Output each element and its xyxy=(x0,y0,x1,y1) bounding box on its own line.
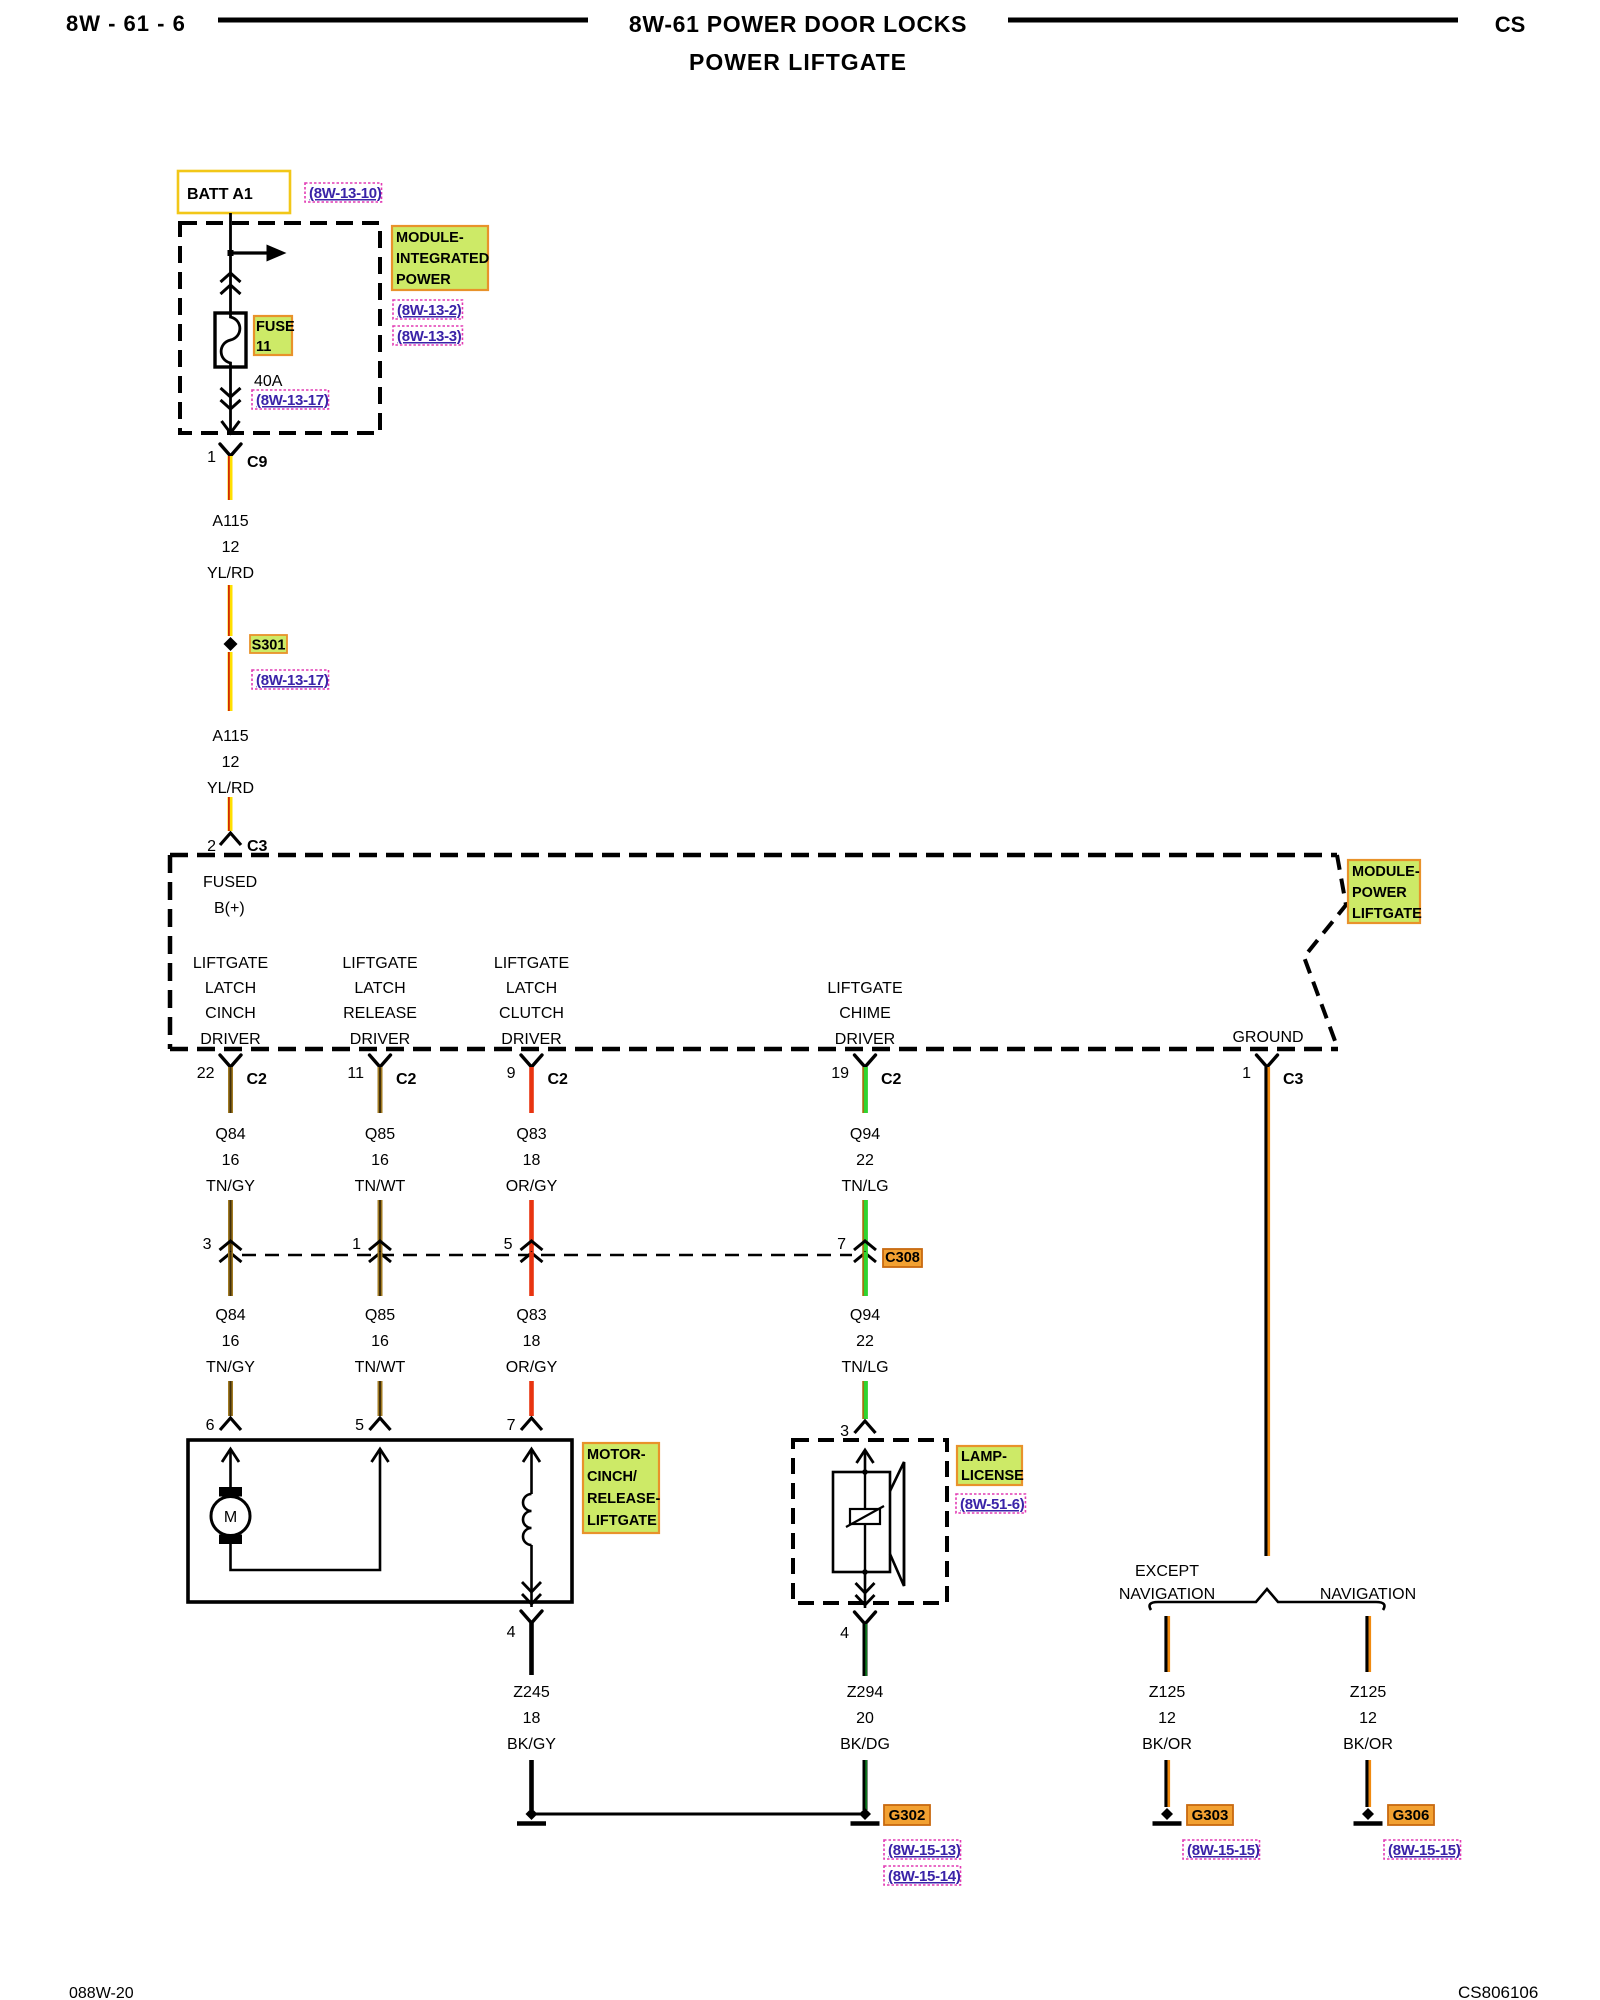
wire Z245 seg2 xyxy=(529,1760,534,1810)
wire Q85 seg2 xyxy=(378,1200,383,1252)
svg-text:C9: C9 xyxy=(247,454,268,471)
fuse rating 40A xyxy=(254,373,283,390)
pin function liftgate latch cinch driver xyxy=(193,955,268,1048)
svg-text:22: 22 xyxy=(197,1065,215,1082)
module-power liftgate dashed box xyxy=(170,855,1346,1049)
ground label G306 xyxy=(1388,1805,1434,1825)
pin function liftgate latch clutch driver xyxy=(494,955,569,1048)
header rule left xyxy=(218,18,588,23)
svg-text:LAMP-: LAMP- xyxy=(961,1449,1007,1465)
splice S301 xyxy=(224,635,288,654)
svg-text:(8W-13-3): (8W-13-3) xyxy=(397,328,462,345)
svg-text:Q83: Q83 xyxy=(516,1307,546,1324)
wire Q85 seg4 xyxy=(378,1381,383,1416)
svg-text:4: 4 xyxy=(840,1625,849,1642)
svg-text:(8W-15-14): (8W-15-14) xyxy=(888,1868,961,1885)
svg-text:NAVIGATION: NAVIGATION xyxy=(1119,1586,1215,1603)
C308 pass-through pin 5 xyxy=(504,1236,543,1262)
svg-text:DRIVER: DRIVER xyxy=(200,1031,260,1048)
connector pin 4 lamp xyxy=(840,1612,875,1642)
svg-text:4: 4 xyxy=(507,1624,516,1641)
wire label Z245 18 BK/GY xyxy=(507,1684,556,1753)
chime element xyxy=(846,1469,884,1608)
svg-text:16: 16 xyxy=(371,1152,389,1169)
svg-text:NAVIGATION: NAVIGATION xyxy=(1320,1586,1416,1603)
svg-text:18: 18 xyxy=(523,1152,541,1169)
svg-text:LIFTGATE: LIFTGATE xyxy=(193,955,268,972)
footer document number xyxy=(1458,1983,1538,2000)
svg-text:LICENSE: LICENSE xyxy=(961,1468,1024,1484)
wire Z245 seg1 xyxy=(529,1623,534,1675)
svg-text:RELEASE: RELEASE xyxy=(343,1005,417,1022)
wire Q94 seg1 xyxy=(863,1067,866,1113)
svg-text:LATCH: LATCH xyxy=(354,980,405,997)
module-integrated power label xyxy=(392,226,489,290)
wire label Q94 22 TN/LG (lower) xyxy=(841,1307,888,1376)
label except navigation xyxy=(1119,1563,1215,1603)
svg-text:LIFTGATE: LIFTGATE xyxy=(827,980,902,997)
svg-text:TN/LG: TN/LG xyxy=(841,1359,888,1376)
wire label Z125 12 BK/OR right xyxy=(1343,1684,1393,1753)
svg-text:Z294: Z294 xyxy=(847,1684,884,1701)
wire label Q83 18 OR/GY (upper) xyxy=(506,1126,558,1195)
connector C2 pin 11 xyxy=(347,1055,416,1088)
link 8W-15-13 xyxy=(884,1840,961,1859)
connector pin 3 lamp xyxy=(840,1421,875,1440)
link 8W-15-15 left xyxy=(1183,1840,1260,1859)
svg-text:BK/OR: BK/OR xyxy=(1142,1736,1192,1753)
svg-text:INTEGRATED: INTEGRATED xyxy=(396,251,489,267)
svg-text:8W-61 POWER DOOR LOCKS: 8W-61 POWER DOOR LOCKS xyxy=(629,11,967,37)
svg-text:C3: C3 xyxy=(1283,1071,1304,1088)
wire fuse to box exit xyxy=(222,367,240,433)
motor-cinch/release-liftgate box xyxy=(188,1440,572,1602)
svg-text:(8W-13-10): (8W-13-10) xyxy=(309,185,382,202)
svg-text:19: 19 xyxy=(831,1065,849,1082)
svg-text:Z245: Z245 xyxy=(513,1684,550,1701)
svg-text:S301: S301 xyxy=(252,638,286,654)
svg-text:C3: C3 xyxy=(247,838,268,855)
svg-text:C2: C2 xyxy=(548,1071,569,1088)
ground G302 terminal left xyxy=(517,1808,546,1824)
svg-text:C2: C2 xyxy=(247,1071,268,1088)
clutch coil pin7 xyxy=(522,1449,541,1607)
wire label A115 12 YL/RD (upper) xyxy=(207,513,254,582)
svg-text:(8W-15-15): (8W-15-15) xyxy=(1388,1842,1461,1859)
connector C3 pin 2 into module xyxy=(207,833,267,855)
pin function liftgate latch release driver xyxy=(342,955,417,1048)
link 8W-13-10 xyxy=(305,183,382,202)
wire Q94 seg4 xyxy=(863,1381,866,1419)
module-integrated power dashed box xyxy=(180,223,380,433)
motor M1 xyxy=(211,1487,250,1544)
link 8W-15-14 xyxy=(884,1866,961,1885)
connector pin 4 motor xyxy=(507,1611,542,1641)
svg-text:1: 1 xyxy=(1242,1065,1251,1082)
wire Q83 seg3 xyxy=(529,1252,534,1296)
svg-text:A115: A115 xyxy=(212,728,248,745)
svg-text:YL/RD: YL/RD xyxy=(207,780,254,797)
wire label Q84 16 TN/GY (lower) xyxy=(206,1307,255,1376)
svg-text:Q85: Q85 xyxy=(365,1126,395,1143)
wire label Q84 16 TN/GY (upper) xyxy=(206,1126,255,1195)
fuse F11 box xyxy=(215,313,246,367)
wire Z125 right seg2 xyxy=(1367,1760,1370,1807)
wire label Z125 12 BK/OR left xyxy=(1142,1684,1192,1753)
svg-text:40A: 40A xyxy=(254,373,283,390)
ground label G302 xyxy=(884,1805,930,1825)
in-line connector C308 dashed line xyxy=(242,1254,852,1257)
svg-text:BK/OR: BK/OR xyxy=(1343,1736,1393,1753)
motor label xyxy=(583,1443,660,1533)
svg-text:16: 16 xyxy=(371,1333,389,1350)
motor pin6 entry arrow xyxy=(222,1449,239,1487)
svg-text:(8W-15-13): (8W-15-13) xyxy=(888,1842,961,1859)
svg-text:LIFTGATE: LIFTGATE xyxy=(494,955,569,972)
svg-text:11: 11 xyxy=(347,1065,364,1082)
C308 pass-through pin 7 xyxy=(837,1236,876,1262)
svg-text:18: 18 xyxy=(523,1710,541,1727)
link 8W-15-15 right xyxy=(1384,1840,1461,1859)
svg-text:FUSED: FUSED xyxy=(203,874,257,891)
connector pin 6 motor xyxy=(206,1417,241,1434)
wire A115 seg4 xyxy=(229,797,230,831)
svg-text:Q94: Q94 xyxy=(850,1307,880,1324)
link 8W-51-6 xyxy=(956,1494,1025,1513)
svg-text:TN/WT: TN/WT xyxy=(355,1178,406,1195)
page header title xyxy=(629,11,967,37)
in-line connector label C308 xyxy=(883,1249,922,1267)
svg-text:POWER: POWER xyxy=(396,272,451,288)
footer sheet number xyxy=(69,1985,134,2000)
svg-text:BK/DG: BK/DG xyxy=(840,1736,890,1753)
motor pin5 entry arrow xyxy=(372,1449,389,1462)
page header left id xyxy=(66,11,186,36)
svg-text:20: 20 xyxy=(856,1710,874,1727)
svg-text:16: 16 xyxy=(222,1333,240,1350)
svg-text:A115: A115 xyxy=(212,513,248,530)
svg-text:(8W-51-6): (8W-51-6) xyxy=(960,1496,1025,1513)
svg-text:OR/GY: OR/GY xyxy=(506,1359,558,1376)
connector C2 pin 19 xyxy=(831,1055,901,1088)
svg-text:LIFTGATE: LIFTGATE xyxy=(1352,906,1422,922)
svg-text:(8W-13-2): (8W-13-2) xyxy=(397,302,462,319)
wire Q84 seg4 xyxy=(228,1381,233,1416)
wire label Q85 16 TN/WT (upper) xyxy=(355,1126,406,1195)
svg-text:(8W-15-15): (8W-15-15) xyxy=(1187,1842,1260,1859)
wire Q85 seg1 xyxy=(378,1067,383,1113)
svg-text:6: 6 xyxy=(206,1417,215,1434)
lamp-license dashed box xyxy=(793,1440,947,1603)
svg-text:(8W-13-17): (8W-13-17) xyxy=(256,672,329,689)
branch arrow to other circuits xyxy=(231,245,287,262)
svg-text:1: 1 xyxy=(352,1236,361,1253)
connector C2 pin 22 xyxy=(197,1055,267,1088)
wire Q84 seg1 xyxy=(228,1067,233,1113)
pin function ground xyxy=(1232,1029,1303,1046)
wire label Q85 16 TN/WT (lower) xyxy=(355,1307,406,1376)
link 8W-13-17 (a) xyxy=(252,390,329,409)
wire Z294 seg2 xyxy=(865,1760,866,1810)
svg-text:BK/GY: BK/GY xyxy=(507,1736,556,1753)
svg-text:Q84: Q84 xyxy=(215,1307,245,1324)
svg-text:TN/LG: TN/LG xyxy=(841,1178,888,1195)
lamp-license label xyxy=(957,1446,1024,1485)
page subtitle xyxy=(689,49,907,75)
wire Q85 seg3 xyxy=(378,1252,383,1296)
svg-text:OR/GY: OR/GY xyxy=(506,1178,558,1195)
svg-text:BATT A1: BATT A1 xyxy=(187,186,253,203)
fuse label FUSE 11 xyxy=(254,316,295,355)
header rule right xyxy=(1008,18,1458,23)
navigation split brace xyxy=(1150,1589,1385,1610)
svg-text:7: 7 xyxy=(507,1417,516,1434)
svg-text:C2: C2 xyxy=(396,1071,417,1088)
lamp wire entry xyxy=(857,1450,874,1472)
wire Z125 left seg1 xyxy=(1166,1616,1169,1672)
svg-text:CLUTCH: CLUTCH xyxy=(499,1005,564,1022)
wire Z294 seg1 xyxy=(865,1624,866,1676)
svg-text:G302: G302 xyxy=(889,1807,926,1824)
wire Q84 seg3 xyxy=(228,1252,233,1296)
wire batt to fuse xyxy=(229,213,232,313)
connector pin 5 motor xyxy=(355,1417,390,1434)
svg-text:16: 16 xyxy=(222,1152,240,1169)
ground bus wire G302 xyxy=(532,1813,866,1816)
svg-text:G306: G306 xyxy=(1393,1807,1430,1824)
svg-text:B(+): B(+) xyxy=(214,900,245,917)
wire Q84 seg2 xyxy=(228,1200,233,1252)
svg-text:DRIVER: DRIVER xyxy=(835,1031,895,1048)
svg-text:MODULE-: MODULE- xyxy=(396,230,464,246)
connector pin 7 motor xyxy=(507,1417,542,1434)
wire A115 seg1 xyxy=(229,456,230,500)
ground G302 terminal right xyxy=(851,1808,880,1824)
svg-text:5: 5 xyxy=(504,1236,513,1253)
link 8W-13-17 (b) xyxy=(252,670,329,689)
svg-text:12: 12 xyxy=(222,754,240,771)
svg-text:22: 22 xyxy=(856,1152,874,1169)
wire Q83 seg2 xyxy=(529,1200,534,1252)
svg-text:Q84: Q84 xyxy=(215,1126,245,1143)
wire A115 seg3 xyxy=(229,652,230,711)
chime speaker body xyxy=(833,1462,904,1586)
page header CS xyxy=(1495,12,1526,37)
svg-text:CS: CS xyxy=(1495,12,1526,37)
motor internal wire to pin5 xyxy=(231,1450,381,1570)
svg-text:EXCEPT: EXCEPT xyxy=(1135,1563,1199,1580)
svg-text:CINCH: CINCH xyxy=(205,1005,256,1022)
wire ground Z seg1 xyxy=(1266,1067,1269,1556)
svg-text:DRIVER: DRIVER xyxy=(501,1031,561,1048)
svg-text:C308: C308 xyxy=(885,1250,920,1266)
wire Q94 seg2 xyxy=(863,1200,866,1252)
svg-text:RELEASE-: RELEASE- xyxy=(587,1491,660,1507)
svg-text:MOTOR-: MOTOR- xyxy=(587,1447,646,1463)
svg-text:C2: C2 xyxy=(881,1071,902,1088)
svg-text:LATCH: LATCH xyxy=(205,980,256,997)
wire label Q94 22 TN/LG (upper) xyxy=(841,1126,888,1195)
chevron pair up (wire continues) xyxy=(221,273,241,294)
svg-text:LIFTGATE: LIFTGATE xyxy=(342,955,417,972)
svg-text:3: 3 xyxy=(203,1236,212,1253)
svg-text:FUSE: FUSE xyxy=(256,319,295,335)
svg-text:Z125: Z125 xyxy=(1149,1684,1186,1701)
svg-text:POWER LIFTGATE: POWER LIFTGATE xyxy=(689,49,907,75)
svg-text:YL/RD: YL/RD xyxy=(207,565,254,582)
wire Q83 seg4 xyxy=(529,1381,534,1416)
svg-text:MODULE-: MODULE- xyxy=(1352,864,1420,880)
svg-text:POWER: POWER xyxy=(1352,885,1407,901)
svg-text:12: 12 xyxy=(222,539,240,556)
module-power liftgate label xyxy=(1348,860,1422,923)
svg-text:TN/GY: TN/GY xyxy=(206,1178,255,1195)
connector C3 pin 1 xyxy=(1242,1055,1303,1088)
battery feed box BATT A1 xyxy=(178,171,290,213)
link 8W-13-2 xyxy=(393,300,462,319)
connector C2 pin 9 xyxy=(507,1055,568,1088)
C308 pass-through pin 3 xyxy=(203,1236,242,1262)
pin function FUSED B(+) xyxy=(203,874,257,917)
svg-text:1: 1 xyxy=(207,449,216,466)
svg-text:9: 9 xyxy=(507,1065,516,1082)
svg-text:11: 11 xyxy=(256,339,271,355)
ground G306 terminal xyxy=(1354,1808,1383,1824)
svg-text:Q94: Q94 xyxy=(850,1126,880,1143)
svg-text:18: 18 xyxy=(523,1333,541,1350)
wire Q83 seg1 xyxy=(529,1067,534,1113)
connector C9 pin 1 xyxy=(207,444,267,471)
svg-text:DRIVER: DRIVER xyxy=(350,1031,410,1048)
svg-text:12: 12 xyxy=(1158,1710,1176,1727)
wire Q94 seg3 xyxy=(863,1252,866,1296)
wire Z125 right seg1 xyxy=(1367,1616,1370,1672)
svg-text:2: 2 xyxy=(207,838,216,855)
link 8W-13-3 xyxy=(393,326,462,345)
wire label Z294 20 BK/DG xyxy=(840,1684,890,1753)
svg-text:CINCH/: CINCH/ xyxy=(587,1469,637,1485)
svg-text:CHIME: CHIME xyxy=(839,1005,891,1022)
svg-text:(8W-13-17): (8W-13-17) xyxy=(256,392,329,409)
svg-text:8W - 61 - 6: 8W - 61 - 6 xyxy=(66,11,186,36)
C308 pass-through pin 1 xyxy=(352,1236,391,1262)
svg-text:G303: G303 xyxy=(1192,1807,1229,1824)
wire label Q83 18 OR/GY (lower) xyxy=(506,1307,558,1376)
svg-text:Q83: Q83 xyxy=(516,1126,546,1143)
pin function liftgate chime driver xyxy=(827,980,902,1048)
svg-text:CS806106: CS806106 xyxy=(1458,1983,1538,2000)
svg-text:22: 22 xyxy=(856,1333,874,1350)
wire label A115 12 YL/RD (lower) xyxy=(207,728,254,797)
svg-text:7: 7 xyxy=(837,1236,846,1253)
svg-text:Q85: Q85 xyxy=(365,1307,395,1324)
ground G303 terminal xyxy=(1153,1808,1182,1824)
svg-text:12: 12 xyxy=(1359,1710,1377,1727)
svg-text:LIFTGATE: LIFTGATE xyxy=(587,1513,657,1529)
ground label G303 xyxy=(1187,1805,1233,1825)
wire Z125 left seg2 xyxy=(1166,1760,1169,1807)
junction node xyxy=(228,250,234,256)
svg-text:3: 3 xyxy=(840,1423,849,1440)
wire A115 seg2 xyxy=(229,585,230,636)
svg-text:TN/WT: TN/WT xyxy=(355,1359,406,1376)
label navigation xyxy=(1320,1586,1416,1603)
svg-text:M: M xyxy=(224,1509,237,1526)
svg-text:TN/GY: TN/GY xyxy=(206,1359,255,1376)
svg-text:LATCH: LATCH xyxy=(506,980,557,997)
svg-text:Z125: Z125 xyxy=(1350,1684,1387,1701)
svg-text:5: 5 xyxy=(355,1417,364,1434)
chevron pair down xyxy=(221,388,241,409)
svg-text:088W-20: 088W-20 xyxy=(69,1985,134,2000)
svg-text:GROUND: GROUND xyxy=(1232,1029,1303,1046)
